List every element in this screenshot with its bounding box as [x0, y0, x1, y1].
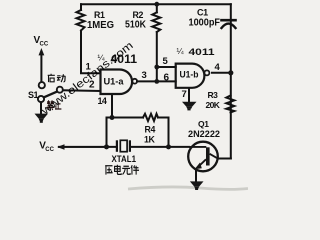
svg-text:1000pF: 1000pF [189, 18, 221, 29]
svg-text:C1: C1 [197, 8, 208, 18]
svg-text:4: 4 [215, 62, 221, 73]
svg-text:20K: 20K [206, 100, 221, 110]
svg-text:2N2222: 2N2222 [188, 129, 220, 140]
svg-text:R2: R2 [133, 10, 144, 20]
svg-text:4011: 4011 [189, 47, 215, 57]
svg-text:7: 7 [182, 89, 187, 100]
svg-text:R3: R3 [208, 90, 219, 100]
svg-text:XTAL1: XTAL1 [112, 154, 137, 165]
svg-text:1MEG: 1MEG [87, 19, 114, 31]
svg-text:CC: CC [40, 42, 49, 48]
svg-text:U1-a: U1-a [104, 77, 125, 87]
svg-text:14: 14 [98, 96, 107, 106]
svg-text:S1: S1 [28, 90, 39, 100]
svg-text:3: 3 [142, 70, 147, 81]
svg-text:¼: ¼ [177, 46, 185, 56]
svg-text:U1-b: U1-b [180, 70, 199, 80]
svg-text:510K: 510K [125, 20, 147, 31]
svg-text:Q1: Q1 [198, 119, 209, 129]
svg-text:CC: CC [45, 147, 54, 153]
svg-text:R4: R4 [145, 125, 156, 135]
svg-text:5: 5 [163, 56, 169, 67]
svg-text:6: 6 [164, 73, 170, 84]
svg-text:1K: 1K [144, 135, 155, 145]
